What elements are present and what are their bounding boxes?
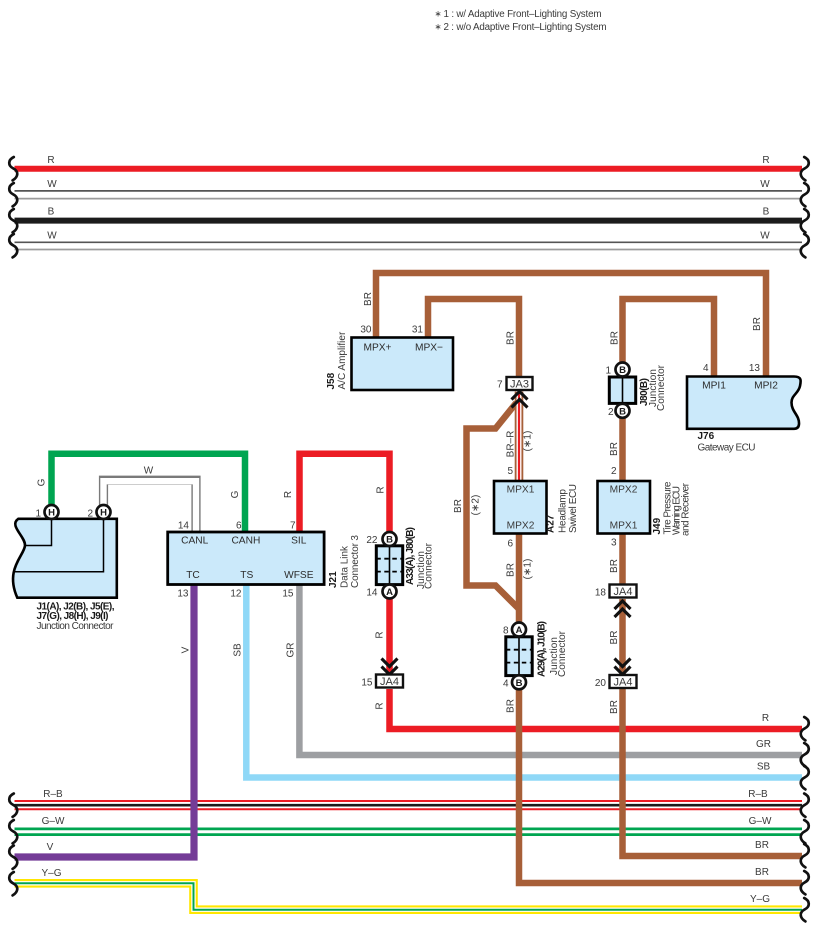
svg-text:R: R <box>47 155 54 166</box>
svg-text:R: R <box>283 491 294 498</box>
break symbol G-W left <box>9 820 17 843</box>
break symbol B bus right <box>801 209 809 232</box>
svg-text:B: B <box>516 678 523 689</box>
A/C amplifier J58 <box>326 331 453 390</box>
tire pressure warning ECU J49 <box>598 481 692 536</box>
svg-text:CANH: CANH <box>231 536 260 547</box>
break symbol BR1 right <box>801 844 809 867</box>
wire V TC to bottom bus <box>15 585 195 858</box>
svg-text:G–W: G–W <box>749 816 772 827</box>
svg-text:W: W <box>760 231 770 242</box>
svg-text:BR: BR <box>506 563 517 577</box>
svg-text:SB: SB <box>233 643 244 657</box>
wire R bus top <box>15 155 803 169</box>
svg-text:J21: J21 <box>328 571 339 588</box>
svg-text:14: 14 <box>366 588 378 599</box>
svg-text:R–B: R–B <box>43 789 63 800</box>
svg-text:22: 22 <box>366 535 378 546</box>
chevron above JA4-20 pointing down <box>615 659 631 675</box>
svg-text:Junction Connector: Junction Connector <box>37 621 115 632</box>
svg-text:SIL: SIL <box>291 536 307 547</box>
J80 pin 2 circled B <box>608 404 630 418</box>
wire GR WFSE to bottom bus <box>286 585 803 756</box>
wire R A33 to JA4-15 <box>375 594 390 675</box>
svg-text:1: 1 <box>605 366 611 377</box>
break symbol R bottom right <box>801 717 809 740</box>
wire R JA4-15 to bottom bus <box>375 689 803 729</box>
svg-text:W: W <box>47 231 57 242</box>
svg-text:14: 14 <box>178 520 190 531</box>
wire BR A27 to A29 junction <box>506 534 534 633</box>
break symbol SB right <box>801 766 809 789</box>
svg-text:H: H <box>100 508 107 519</box>
svg-text:JA3: JA3 <box>510 379 529 391</box>
wire R SIL to A33 junction <box>283 454 390 539</box>
junction connector A33(A) J80(B) <box>376 527 434 589</box>
svg-text:R: R <box>375 702 386 709</box>
svg-text:Data Link: Data Link <box>340 545 351 588</box>
svg-text:8: 8 <box>503 626 509 637</box>
svg-text:BR: BR <box>506 699 517 713</box>
junction connector J1/J2/J5/J7/J8/J9 <box>13 519 117 632</box>
A29 pin 8 circled A <box>503 623 526 637</box>
svg-text:7: 7 <box>290 520 296 531</box>
svg-text:Connector: Connector <box>424 542 435 589</box>
connector JA4 pin 20 <box>595 675 637 689</box>
svg-text:Y–G: Y–G <box>41 868 61 879</box>
chevron below JA3 <box>512 392 528 408</box>
svg-text:2: 2 <box>608 407 614 418</box>
svg-text:MPX−: MPX− <box>415 343 443 354</box>
wire BR J49 to JA4-18 <box>609 534 623 586</box>
connector JA3 <box>497 377 533 391</box>
wire R-B bus bottom <box>15 789 803 809</box>
svg-text:J49: J49 <box>652 517 663 534</box>
svg-text:A/C Amplifier: A/C Amplifier <box>337 331 348 389</box>
break symbol B bus left <box>9 209 17 232</box>
svg-text:R: R <box>762 155 769 166</box>
svg-text:BR: BR <box>609 559 620 573</box>
svg-text:R: R <box>375 631 386 638</box>
svg-text:G–W: G–W <box>42 816 65 827</box>
svg-text:B: B <box>619 407 626 418</box>
svg-text:GR: GR <box>286 643 297 658</box>
svg-text:TS: TS <box>240 570 253 581</box>
svg-text:15: 15 <box>282 589 294 600</box>
svg-text:4: 4 <box>503 679 509 690</box>
junction connector J80(B) <box>609 364 667 411</box>
svg-text:4: 4 <box>703 363 709 374</box>
note asterisk 2 <box>435 22 607 34</box>
svg-text:J76: J76 <box>698 431 715 442</box>
svg-text:3: 3 <box>611 538 617 549</box>
break symbol R bus left <box>9 157 17 180</box>
break symbol W2 bus right <box>801 234 809 257</box>
break symbol R-B right <box>801 794 809 817</box>
svg-text:GR: GR <box>756 739 771 750</box>
break symbol Y-G right <box>801 898 809 921</box>
svg-text:R: R <box>762 713 769 724</box>
svg-text:A: A <box>516 625 523 636</box>
svg-text:15: 15 <box>361 678 373 689</box>
svg-text:MPI1: MPI1 <box>702 381 726 392</box>
A29 pin 4 circled B <box>503 675 526 689</box>
svg-text:2: 2 <box>611 466 617 477</box>
svg-text:BR: BR <box>506 331 517 345</box>
break symbol W bus left <box>9 183 17 206</box>
svg-text:MPI2: MPI2 <box>754 381 778 392</box>
svg-text:BR: BR <box>609 631 620 645</box>
wire BR bypass (*2) <box>453 403 519 609</box>
svg-text:V: V <box>47 842 54 853</box>
junction connector A29(A) J10(B) <box>506 621 568 677</box>
svg-text:R: R <box>376 486 387 493</box>
wire G junction to CANH <box>37 454 246 532</box>
break symbol R bus right <box>801 157 809 180</box>
J80 pin 1 circled B <box>605 363 629 377</box>
wire BR MPX- to JA3 <box>428 299 519 378</box>
svg-text:13: 13 <box>177 589 189 600</box>
svg-text:V: V <box>181 646 192 653</box>
svg-text:W: W <box>760 179 770 190</box>
svg-text:Connector: Connector <box>557 630 568 677</box>
svg-text:A: A <box>386 587 393 598</box>
svg-text:30: 30 <box>360 325 372 336</box>
svg-text:1 : w/ Adaptive Front–Lighting: 1 : w/ Adaptive Front–Lighting System <box>444 9 602 20</box>
A33 pin 22 circled B <box>366 532 396 546</box>
A33 pin 14 circled A <box>366 585 396 599</box>
data link connector 3 J21 <box>168 532 361 588</box>
connector JA4 pin 18 <box>595 585 637 599</box>
svg-text:BR: BR <box>609 442 620 456</box>
svg-text:12: 12 <box>230 589 242 600</box>
svg-text:Gateway ECU: Gateway ECU <box>698 443 756 454</box>
wire BR MPX+ to MPI2 <box>363 273 766 377</box>
svg-text:A33(A), J80(B): A33(A), J80(B) <box>405 527 416 585</box>
svg-text:JA4: JA4 <box>614 677 633 689</box>
wire BR-R JA3 to A27 MPX1 <box>506 392 534 482</box>
break symbol BR2 right <box>801 871 809 894</box>
svg-text:A29(A), J10(B): A29(A), J10(B) <box>537 621 548 677</box>
svg-text:20: 20 <box>595 678 607 689</box>
gateway ECU J76 <box>687 377 801 454</box>
break symbol V left <box>9 846 17 869</box>
svg-text:Connector 3: Connector 3 <box>350 535 361 588</box>
svg-text:Y–G: Y–G <box>750 894 770 905</box>
break symbol G-W right <box>801 820 809 843</box>
svg-text:18: 18 <box>595 588 607 599</box>
J1 pin 2 circled H <box>87 505 110 520</box>
svg-text:BR: BR <box>752 317 763 331</box>
svg-text:BR: BR <box>363 292 374 306</box>
wire W bus top <box>15 179 803 199</box>
svg-text:A27: A27 <box>546 514 557 533</box>
svg-text:(∗1): (∗1) <box>523 431 534 452</box>
svg-text:2: 2 <box>87 509 93 520</box>
J1 pin 1 circled H <box>35 505 58 520</box>
wire G-W bus bottom <box>15 816 803 835</box>
svg-text:31: 31 <box>412 325 424 336</box>
svg-text:MPX2: MPX2 <box>610 485 638 496</box>
svg-text:Headlamp: Headlamp <box>558 489 569 533</box>
note asterisk 1 <box>435 9 602 21</box>
svg-text:MPX2: MPX2 <box>507 521 535 532</box>
svg-text:Swivel ECU: Swivel ECU <box>568 484 579 533</box>
headlamp swivel ECU A27 <box>494 481 579 534</box>
svg-text:6: 6 <box>236 520 242 531</box>
svg-text:MPX+: MPX+ <box>363 343 391 354</box>
break symbol W bus right <box>801 183 809 206</box>
svg-text:13: 13 <box>749 363 761 374</box>
svg-text:JA4: JA4 <box>614 586 633 598</box>
svg-text:JA4: JA4 <box>380 676 399 688</box>
wire Y-G bus bottom <box>15 868 803 910</box>
svg-text:5: 5 <box>507 466 513 477</box>
svg-text:H: H <box>48 508 55 519</box>
break symbol R-B left <box>9 794 17 817</box>
svg-text:BR: BR <box>609 700 620 714</box>
wire BR JA4-18 to JA4-20 <box>609 599 623 674</box>
wire B bus top <box>15 207 803 221</box>
svg-text:BR: BR <box>755 840 769 851</box>
svg-text:B: B <box>763 207 770 218</box>
svg-text:2 : w/o Adaptive Front–Lightin: 2 : w/o Adaptive Front–Lighting System <box>444 22 607 33</box>
svg-text:TC: TC <box>186 570 200 581</box>
svg-text:and Receiver: and Receiver <box>681 482 692 536</box>
svg-text:BR: BR <box>453 499 464 513</box>
svg-text:6: 6 <box>507 539 513 550</box>
svg-text:W: W <box>144 466 154 477</box>
svg-text:BR–R: BR–R <box>506 431 517 458</box>
wire BR A29 junction to bottom right bus <box>506 676 803 883</box>
svg-text:Connector: Connector <box>656 364 667 411</box>
svg-text:(∗2): (∗2) <box>471 495 482 516</box>
break symbol W2 bus left <box>9 234 17 257</box>
wire BR JA4-20 to bottom bus <box>609 689 802 856</box>
wire BR J80 to J49 <box>609 414 623 481</box>
wire BR J80 pin1 to MPI1 <box>610 299 715 377</box>
break symbol Y-G left <box>9 872 17 895</box>
svg-text:BR: BR <box>755 867 769 878</box>
break symbol GR right <box>801 743 809 766</box>
svg-text:MPX1: MPX1 <box>507 485 535 496</box>
svg-text:WFSE: WFSE <box>284 570 314 581</box>
svg-text:R–B: R–B <box>748 789 768 800</box>
svg-text:BR: BR <box>610 331 621 345</box>
svg-text:G: G <box>37 478 48 486</box>
svg-text:∗: ∗ <box>435 22 442 32</box>
chevron below JA4-18 pointing up <box>615 601 631 617</box>
wire SB TS to bottom bus <box>233 585 803 778</box>
svg-text:(∗1): (∗1) <box>523 559 534 580</box>
svg-text:1: 1 <box>35 509 41 520</box>
svg-text:∗: ∗ <box>435 9 442 19</box>
svg-text:W: W <box>47 179 57 190</box>
svg-text:G: G <box>230 490 241 498</box>
svg-text:B: B <box>48 207 55 218</box>
connector JA4 pin 15 <box>361 675 403 689</box>
chevron above JA4-15 pointing down <box>382 659 398 675</box>
svg-text:B: B <box>386 535 393 546</box>
svg-text:J58: J58 <box>326 372 337 389</box>
wire W2 bus top <box>15 231 803 250</box>
svg-text:B: B <box>619 365 626 376</box>
svg-text:SB: SB <box>757 762 771 773</box>
svg-text:7: 7 <box>497 380 503 391</box>
svg-text:MPX1: MPX1 <box>610 521 638 532</box>
wire W junction to CANL <box>104 466 197 532</box>
svg-text:CANL: CANL <box>181 536 209 547</box>
